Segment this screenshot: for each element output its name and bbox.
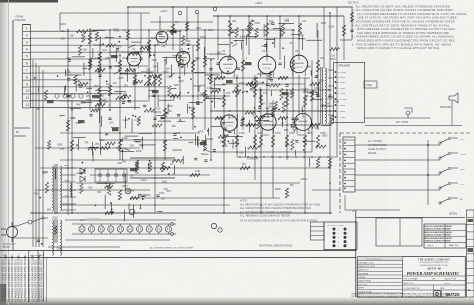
heater terminal A	[170, 222, 173, 225]
wire	[70, 107, 81, 109]
wire	[211, 88, 221, 90]
capacitor CY355	[177, 113, 180, 115]
tolerance table	[402, 257, 404, 297]
filter capacitor C20	[98, 173, 102, 175]
wire	[294, 150, 296, 156]
resistor R76	[190, 173, 200, 176]
junction	[260, 89, 262, 91]
connector pin 7	[343, 174, 355, 176]
resistor R22	[235, 85, 238, 97]
resistor R23	[253, 85, 256, 97]
junction	[227, 71, 229, 73]
AC plug P1	[7, 227, 18, 238]
resistor R54	[271, 108, 274, 117]
resistor R37	[259, 135, 262, 147]
junction	[67, 167, 69, 169]
heater H8	[146, 226, 152, 232]
junction	[180, 137, 182, 139]
junction	[128, 118, 130, 120]
resistor R65	[246, 82, 256, 85]
capacitor CX102	[89, 113, 92, 115]
resistor R71	[310, 123, 320, 126]
resistor RX255	[80, 184, 83, 194]
junction	[98, 57, 100, 59]
junction	[255, 156, 256, 157]
wire	[90, 174, 210, 176]
title row scale-date	[403, 280, 466, 282]
wire	[40, 167, 330, 169]
wire	[255, 119, 269, 121]
resistor RY358	[116, 97, 126, 100]
resistor R36	[222, 135, 225, 147]
heater bus upper	[72, 223, 176, 225]
wire	[232, 44, 237, 47]
wire	[76, 182, 300, 184]
scan noise overlay	[0, 0, 1, 1]
divider chain	[316, 158, 319, 168]
wire	[260, 90, 262, 213]
capacitor CX194	[315, 75, 318, 77]
resistor RX16	[95, 32, 98, 41]
resistor R6	[147, 75, 150, 86]
reference tag	[200, 142, 207, 145]
wire	[157, 211, 162, 213]
resistor RY443	[88, 147, 98, 150]
junction	[154, 132, 156, 134]
heater H10	[165, 226, 171, 232]
heater bus lower	[72, 233, 176, 235]
wire	[343, 16, 345, 60]
resistor R29	[316, 60, 319, 72]
wire	[148, 95, 230, 97]
resistor RX318	[45, 182, 48, 193]
socket pin L5	[333, 244, 336, 247]
wire	[298, 75, 300, 115]
resistor R3	[118, 60, 121, 71]
wire	[351, 7, 353, 40]
capacitor CY389	[68, 59, 71, 61]
socket view box	[324, 222, 357, 250]
wire	[172, 7, 174, 50]
resistor RX17	[218, 135, 228, 138]
resistor RX115	[129, 52, 139, 55]
resistor RY332	[144, 82, 154, 85]
choke L1	[70, 183, 71, 197]
wire	[65, 239, 170, 241]
wire	[60, 100, 150, 102]
junction	[223, 89, 225, 91]
wire	[88, 146, 99, 148]
resistor RX150	[121, 95, 131, 98]
wire	[86, 87, 92, 89]
junction	[236, 77, 238, 79]
wire	[89, 28, 91, 110]
capacitor CY365	[109, 65, 112, 67]
wire	[186, 7, 188, 40]
title block outer	[357, 257, 465, 298]
junction	[150, 55, 152, 57]
wire	[164, 60, 166, 160]
resistor R75	[160, 166, 170, 169]
reference tag	[111, 55, 118, 58]
resistor R38	[291, 60, 294, 71]
junction	[180, 119, 182, 121]
wire	[259, 87, 261, 100]
wire	[257, 73, 271, 75]
speaker tap row	[335, 92, 337, 94]
resistor RY409	[255, 28, 258, 38]
resistor RX147	[89, 58, 92, 67]
wire	[93, 44, 102, 46]
wire	[128, 204, 130, 210]
reference tag	[78, 120, 85, 123]
junction	[192, 95, 194, 97]
wire	[303, 91, 317, 93]
right strip mark 2	[468, 248, 474, 252]
wire	[336, 7, 338, 157]
junction	[110, 202, 112, 204]
resistor R41	[118, 140, 121, 151]
wire	[92, 142, 94, 155]
wire	[241, 41, 243, 49]
wire	[193, 85, 201, 87]
resistor R4	[133, 75, 136, 85]
wire	[250, 89, 332, 91]
junction	[210, 159, 212, 161]
wire	[31, 107, 141, 109]
wire	[236, 75, 238, 157]
junction	[239, 156, 240, 157]
small pin table	[311, 222, 325, 240]
socket pin R5	[344, 244, 347, 247]
wire	[130, 157, 175, 159]
capacitor C4	[196, 102, 199, 104]
connector pin 5	[343, 162, 355, 164]
junction	[227, 140, 229, 142]
junction	[311, 156, 312, 157]
resistor R80	[135, 162, 138, 172]
wire	[165, 57, 167, 65]
connector pin 4	[343, 156, 355, 158]
wire	[270, 90, 272, 96]
capacitor CX158	[316, 92, 319, 94]
resistor R47	[88, 60, 91, 70]
terminal 10	[23, 86, 31, 88]
wire	[210, 60, 212, 160]
junction	[304, 89, 306, 91]
wire	[59, 13, 61, 30]
wire	[246, 35, 258, 37]
wire	[211, 53, 226, 55]
right margin strip	[467, 210, 474, 297]
title row appr	[403, 284, 466, 286]
resistor RX178	[268, 71, 271, 80]
wire	[272, 100, 274, 198]
wire	[48, 246, 120, 248]
wire	[344, 195, 346, 210]
wire	[196, 136, 198, 145]
wire	[298, 38, 305, 40]
wire	[306, 39, 322, 41]
resistor R79	[130, 196, 139, 199]
capacitor C5	[216, 62, 219, 64]
junction	[102, 43, 104, 45]
junction	[71, 212, 73, 214]
wire	[149, 90, 155, 92]
tube V1 12DW7	[127, 52, 141, 66]
rectifier CR1	[80, 168, 85, 174]
tolerance row	[357, 285, 402, 287]
wire	[201, 153, 209, 155]
wire	[157, 94, 159, 106]
terminal circle	[195, 10, 199, 14]
wire	[197, 13, 199, 100]
wire	[169, 73, 175, 77]
wire	[240, 124, 330, 126]
junction	[254, 77, 256, 79]
reference tag	[92, 95, 99, 98]
power transformer T1 secondary	[60, 166, 62, 211]
terminal circle 3	[71, 94, 75, 98]
wire	[184, 64, 186, 75]
wire	[311, 60, 313, 152]
junction	[153, 54, 155, 56]
wire	[125, 149, 130, 150]
wire	[38, 86, 40, 92]
heater terminal B	[170, 232, 173, 235]
resistor RX248	[172, 159, 183, 162]
resistor R32	[271, 135, 274, 147]
wire	[104, 195, 106, 209]
wire	[149, 45, 151, 58]
revision band upper rule	[0, 250, 356, 252]
resistor R82	[161, 162, 164, 172]
resistor R63	[170, 94, 180, 97]
wire	[279, 16, 281, 60]
terminal strip TS1	[23, 25, 31, 108]
capacitor CX271	[266, 83, 269, 85]
wire	[192, 58, 198, 63]
wire	[81, 101, 92, 103]
resistor R45	[153, 75, 156, 86]
wire	[213, 94, 215, 108]
junction	[141, 196, 143, 198]
tube V2B 6CG7	[176, 51, 190, 65]
resistor RX42	[98, 87, 101, 98]
resistor R20	[281, 23, 284, 36]
speaker J3	[449, 93, 458, 103]
junction	[329, 212, 331, 214]
wire	[31, 79, 93, 81]
connector strip J4	[343, 137, 355, 192]
tube V7 7027A	[260, 114, 276, 130]
reference tag	[47, 100, 54, 103]
capacitor C11	[108, 117, 111, 119]
switch SW1	[32, 218, 42, 222]
resistor R74	[100, 146, 110, 149]
resistor RX196	[330, 47, 340, 50]
heater H1	[79, 226, 85, 232]
resistor R25	[222, 95, 225, 107]
junction	[329, 12, 331, 14]
wire	[218, 44, 230, 46]
wire	[167, 30, 182, 32]
wire	[173, 138, 178, 140]
resistor R60	[95, 68, 105, 71]
junction	[282, 47, 284, 49]
wire	[67, 74, 82, 76]
speaker tap row	[335, 71, 337, 73]
speaker tap row	[335, 81, 337, 83]
wire	[263, 24, 265, 37]
junction	[267, 110, 269, 112]
junction	[304, 212, 306, 214]
revision band verticals	[28, 251, 30, 303]
junction	[291, 124, 293, 126]
switch S2	[440, 154, 448, 158]
wire	[44, 217, 48, 219]
wire	[92, 30, 106, 32]
wire	[173, 95, 175, 101]
wire	[248, 16, 250, 55]
socket pin L2	[333, 232, 336, 235]
wire	[355, 189, 440, 191]
wire	[159, 99, 173, 101]
tolerance row	[357, 270, 402, 272]
wire	[242, 30, 244, 130]
junction	[328, 89, 330, 91]
pilot circle2	[218, 228, 222, 232]
resistor R28	[303, 95, 306, 107]
junction	[118, 41, 120, 43]
speaker tap row	[335, 98, 337, 100]
wire	[154, 45, 156, 213]
wire	[119, 55, 121, 160]
resistor RX311	[44, 90, 47, 100]
junction	[109, 193, 111, 195]
wire	[182, 59, 184, 68]
tube V4 7027A	[258, 56, 276, 74]
wire	[254, 75, 256, 180]
resistor RX151	[255, 77, 258, 88]
capacitor C6	[153, 117, 156, 119]
resistor RX63	[98, 63, 101, 72]
junction	[126, 57, 128, 59]
wire	[14, 135, 26, 137]
capacitor CX212	[258, 106, 261, 108]
wire	[215, 77, 310, 79]
pilot circle	[211, 223, 216, 228]
speaker tap row	[335, 104, 337, 106]
filter capacitor bank dashed box	[95, 169, 127, 182]
wire	[31, 44, 161, 46]
junction	[83, 169, 85, 171]
resistor R64	[215, 76, 225, 79]
wire common long	[365, 125, 463, 127]
resistor R10	[178, 55, 181, 66]
ext speaker jack J2	[406, 111, 410, 115]
wire	[355, 144, 440, 146]
wire	[177, 121, 185, 123]
wire	[62, 209, 76, 211]
heater H3	[98, 226, 104, 232]
capacitor CY384	[116, 47, 119, 49]
wire	[75, 81, 77, 92]
capacitor CX321	[37, 239, 40, 241]
junction	[135, 116, 137, 118]
capacitor CY373	[68, 94, 71, 96]
wire	[309, 158, 311, 167]
wire	[451, 100, 453, 126]
junction	[140, 207, 142, 209]
resistor R26	[241, 60, 244, 71]
junction	[168, 173, 170, 175]
capacitor CX157	[228, 130, 231, 132]
speaker tap row	[335, 110, 337, 112]
impedance select box	[364, 81, 377, 88]
junction	[67, 69, 69, 71]
resistor R40	[66, 120, 69, 131]
resistor R13	[196, 39, 199, 51]
junction	[260, 212, 262, 214]
terminal 6	[23, 58, 31, 60]
capacitor CX22	[122, 101, 125, 103]
rectifier CR2	[80, 176, 85, 182]
wire	[205, 74, 220, 76]
junction	[119, 54, 121, 56]
wire	[82, 67, 87, 70]
wire	[211, 126, 223, 128]
junction	[286, 89, 288, 91]
wire	[208, 128, 210, 136]
wire	[170, 65, 172, 78]
terminal circle 2	[63, 94, 67, 98]
junction	[111, 211, 113, 213]
junction	[235, 40, 237, 42]
junction	[105, 182, 107, 184]
junction	[286, 124, 288, 126]
wire	[323, 7, 325, 68]
resistor RX169	[291, 139, 294, 150]
resistor R56	[285, 188, 288, 198]
application block	[376, 218, 422, 246]
resistor RX195	[254, 116, 265, 119]
junction	[106, 81, 108, 83]
filament transformer T2 primary	[52, 220, 54, 255]
drawing left border	[12, 20, 14, 251]
capacitor C31	[156, 194, 159, 196]
wire	[31, 37, 301, 39]
tube V6 7027A	[221, 115, 237, 131]
wire	[126, 69, 128, 82]
junction	[298, 54, 300, 56]
speaker tap row	[335, 116, 337, 118]
resistor RX186	[250, 20, 253, 31]
capacitor C10	[66, 94, 69, 96]
wire	[131, 41, 141, 43]
heater H9	[156, 226, 162, 232]
vertical divider	[433, 285, 435, 290]
wire	[205, 135, 207, 144]
wire	[38, 66, 40, 247]
junction	[81, 173, 83, 175]
wire	[32, 60, 34, 247]
junction	[266, 54, 268, 56]
resistor R66	[215, 116, 225, 119]
wire	[145, 194, 150, 196]
capacitor C8	[278, 62, 281, 64]
wire	[278, 23, 294, 25]
